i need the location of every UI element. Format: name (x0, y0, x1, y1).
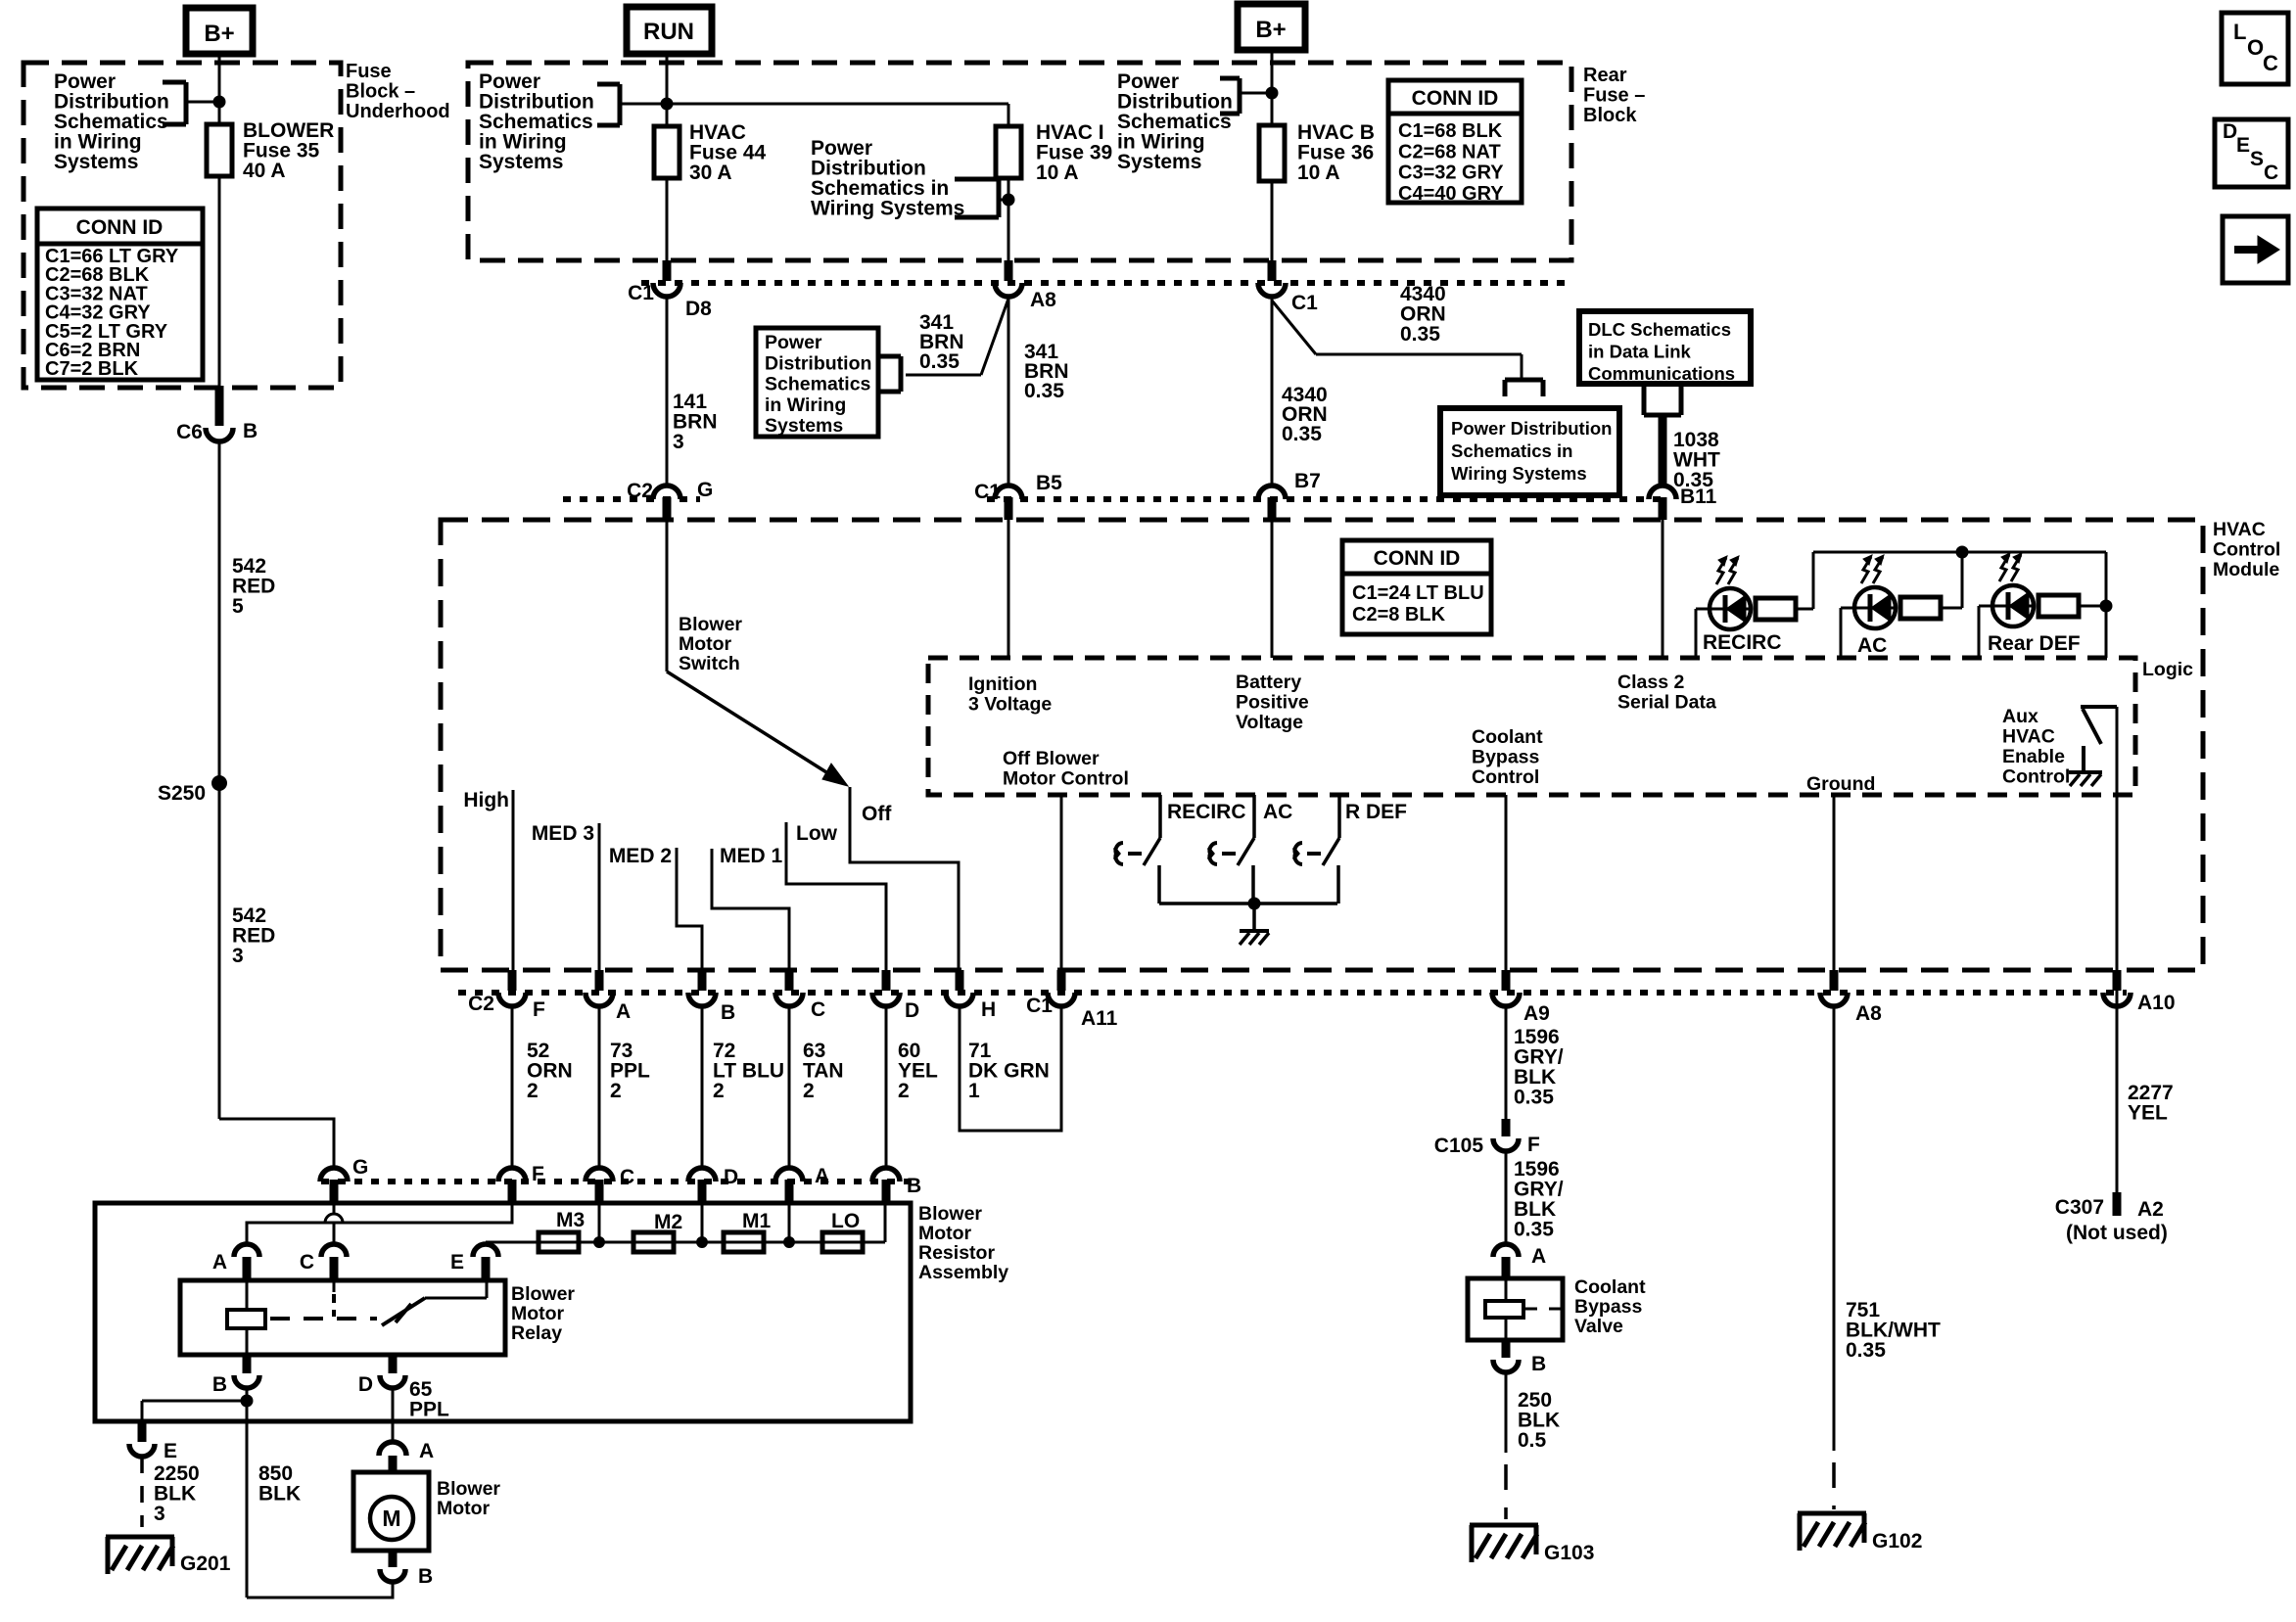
svg-text:A: A (212, 1251, 227, 1274)
svg-text:B: B (1531, 1353, 1546, 1375)
svg-text:Blower: Blower (437, 1478, 500, 1500)
svg-text:Systems: Systems (1117, 151, 1201, 173)
svg-text:C: C (300, 1251, 314, 1274)
svg-text:C4=40 GRY: C4=40 GRY (1398, 183, 1504, 205)
svg-text:Wiring Systems: Wiring Systems (811, 198, 964, 220)
svg-text:5: 5 (232, 595, 244, 618)
svg-text:M: M (382, 1506, 400, 1531)
svg-text:B+: B+ (204, 21, 234, 47)
svg-text:C2=8 BLK: C2=8 BLK (1352, 604, 1446, 626)
svg-text:Systems: Systems (54, 151, 138, 173)
svg-text:A: A (1531, 1245, 1546, 1268)
svg-text:B: B (721, 1001, 735, 1024)
svg-text:Communications: Communications (1588, 363, 1735, 384)
svg-text:MED 3: MED 3 (532, 822, 594, 845)
svg-text:Class 2: Class 2 (1617, 672, 1684, 693)
svg-text:2: 2 (610, 1080, 622, 1102)
svg-text:Coolant: Coolant (1472, 726, 1543, 748)
svg-text:0.35: 0.35 (1024, 380, 1064, 402)
svg-text:C1=68 BLK: C1=68 BLK (1398, 120, 1503, 142)
svg-text:Relay: Relay (511, 1322, 562, 1344)
svg-text:2: 2 (527, 1080, 539, 1102)
svg-text:Motor: Motor (511, 1303, 565, 1324)
svg-text:A10: A10 (2137, 992, 2176, 1014)
svg-text:B7: B7 (1294, 470, 1321, 492)
svg-text:G102: G102 (1872, 1530, 1922, 1552)
svg-text:Resistor: Resistor (918, 1242, 995, 1264)
svg-text:RECIRC: RECIRC (1167, 801, 1246, 823)
svg-text:D: D (2223, 120, 2237, 143)
svg-text:C: C (2264, 162, 2278, 184)
svg-text:C2: C2 (468, 993, 494, 1015)
svg-text:Serial Data: Serial Data (1617, 692, 1716, 714)
svg-text:S: S (2250, 148, 2264, 170)
svg-text:Positive: Positive (1236, 692, 1309, 714)
svg-text:30 A: 30 A (689, 162, 732, 184)
svg-text:M1: M1 (742, 1210, 771, 1232)
svg-text:0.35: 0.35 (919, 350, 960, 373)
svg-text:40 A: 40 A (243, 160, 286, 182)
svg-text:F: F (1527, 1134, 1540, 1156)
svg-text:Blower: Blower (679, 614, 742, 635)
svg-text:Bypass: Bypass (1472, 747, 1540, 768)
svg-text:in Data Link: in Data Link (1588, 342, 1692, 362)
svg-text:HVAC: HVAC (2002, 726, 2055, 748)
svg-text:MED 1: MED 1 (720, 845, 783, 867)
svg-text:B: B (243, 420, 258, 442)
svg-text:L: L (2233, 20, 2246, 44)
svg-text:E: E (450, 1251, 464, 1274)
svg-text:D: D (905, 999, 919, 1022)
svg-text:DLC Schematics: DLC Schematics (1588, 319, 1731, 340)
svg-text:BLK: BLK (258, 1483, 301, 1506)
svg-text:Block –: Block – (346, 81, 415, 103)
svg-text:3: 3 (673, 431, 684, 453)
svg-text:3: 3 (232, 945, 244, 967)
svg-text:Wiring Systems: Wiring Systems (1451, 463, 1587, 484)
svg-text:C307: C307 (2055, 1196, 2104, 1219)
svg-text:3 Voltage: 3 Voltage (968, 694, 1052, 716)
svg-text:1: 1 (968, 1080, 980, 1102)
svg-text:Motor Control: Motor Control (1003, 768, 1129, 790)
svg-text:Assembly: Assembly (918, 1262, 1008, 1283)
svg-text:LO: LO (831, 1210, 860, 1232)
svg-text:Block: Block (1583, 105, 1637, 126)
svg-text:0.35: 0.35 (1514, 1219, 1554, 1241)
svg-text:O: O (2247, 35, 2264, 60)
svg-text:S250: S250 (158, 782, 206, 805)
svg-text:Schematics in: Schematics in (1451, 440, 1572, 461)
svg-text:Ignition: Ignition (968, 673, 1037, 695)
svg-text:Rear DEF: Rear DEF (1988, 632, 2081, 655)
svg-text:HVAC: HVAC (2213, 519, 2266, 540)
svg-text:Control: Control (1472, 766, 1539, 788)
svg-text:C3=32 GRY: C3=32 GRY (1398, 162, 1504, 184)
svg-text:E: E (164, 1440, 177, 1462)
svg-text:Blower: Blower (918, 1203, 982, 1225)
svg-text:Enable: Enable (2002, 746, 2065, 767)
svg-text:0.35: 0.35 (1514, 1087, 1554, 1109)
svg-text:Underhood: Underhood (346, 101, 450, 122)
svg-text:Rear: Rear (1583, 65, 1627, 86)
svg-text:2: 2 (713, 1080, 725, 1102)
svg-text:2: 2 (803, 1080, 815, 1102)
svg-text:C6: C6 (176, 421, 203, 443)
svg-text:G: G (697, 479, 713, 501)
svg-text:C105: C105 (1434, 1135, 1484, 1157)
svg-text:Control: Control (2213, 539, 2280, 561)
svg-text:(Not used): (Not used) (2066, 1222, 2168, 1244)
svg-text:Battery: Battery (1236, 672, 1301, 693)
svg-text:Power: Power (765, 332, 822, 353)
svg-text:Systems: Systems (765, 415, 843, 437)
svg-text:B: B (418, 1565, 433, 1588)
svg-text:10 A: 10 A (1297, 162, 1340, 184)
svg-text:A: A (815, 1165, 829, 1187)
svg-text:in Wiring: in Wiring (765, 394, 846, 416)
svg-text:R DEF: R DEF (1345, 801, 1407, 823)
svg-text:RECIRC: RECIRC (1703, 631, 1782, 654)
svg-text:CONN ID: CONN ID (1374, 547, 1461, 570)
svg-text:Bypass: Bypass (1574, 1296, 1643, 1318)
svg-text:A: A (419, 1440, 434, 1462)
svg-text:0.35: 0.35 (1282, 423, 1322, 445)
svg-text:G103: G103 (1544, 1542, 1594, 1564)
svg-text:C1: C1 (974, 481, 1001, 503)
svg-text:F: F (533, 998, 545, 1021)
svg-text:B: B (907, 1175, 921, 1197)
svg-text:Motor: Motor (918, 1223, 972, 1244)
svg-text:Distribution: Distribution (765, 352, 871, 374)
svg-text:2: 2 (898, 1080, 910, 1102)
svg-text:10 A: 10 A (1036, 162, 1079, 184)
svg-text:D8: D8 (685, 298, 712, 320)
svg-text:Control: Control (2002, 766, 2070, 788)
svg-text:Coolant: Coolant (1574, 1276, 1646, 1298)
svg-text:Aux: Aux (2002, 706, 2038, 727)
svg-text:B11: B11 (1680, 486, 1717, 508)
svg-text:G201: G201 (180, 1552, 231, 1575)
svg-text:Logic: Logic (2142, 659, 2193, 680)
svg-text:CONN ID: CONN ID (1412, 87, 1499, 110)
svg-text:CONN ID: CONN ID (76, 216, 164, 239)
svg-text:Power Distribution: Power Distribution (1451, 418, 1612, 439)
svg-text:RUN: RUN (643, 19, 694, 45)
svg-text:0.35: 0.35 (1846, 1339, 1886, 1362)
svg-text:0.35: 0.35 (1400, 323, 1440, 346)
svg-text:E: E (2236, 134, 2250, 157)
svg-text:B+: B+ (1255, 17, 1286, 43)
svg-text:A8: A8 (1030, 289, 1056, 311)
svg-text:MED 2: MED 2 (609, 845, 672, 867)
svg-text:Blower: Blower (511, 1283, 575, 1305)
svg-text:C: C (811, 998, 825, 1021)
svg-text:C: C (620, 1166, 634, 1188)
svg-text:Ground: Ground (1806, 773, 1875, 795)
svg-text:YEL: YEL (2128, 1102, 2168, 1125)
svg-text:Switch: Switch (679, 653, 740, 674)
svg-text:3: 3 (154, 1503, 165, 1525)
svg-text:Low: Low (796, 822, 838, 845)
svg-text:C7=2 BLK: C7=2 BLK (45, 358, 139, 380)
svg-text:M3: M3 (556, 1209, 585, 1231)
svg-text:Off: Off (862, 803, 892, 825)
svg-text:A9: A9 (1523, 1002, 1550, 1025)
svg-text:B5: B5 (1036, 472, 1062, 494)
svg-text:Fuse: Fuse (346, 61, 392, 82)
svg-text:M2: M2 (654, 1211, 682, 1233)
svg-text:DK GRN: DK GRN (968, 1060, 1050, 1083)
svg-text:C2=68 NAT: C2=68 NAT (1398, 141, 1501, 162)
svg-text:C2: C2 (627, 480, 653, 502)
svg-text:AC: AC (1263, 801, 1292, 823)
svg-text:D: D (358, 1373, 373, 1396)
svg-text:Off Blower: Off Blower (1003, 748, 1100, 769)
svg-text:Valve: Valve (1574, 1316, 1623, 1337)
svg-text:A11: A11 (1081, 1007, 1118, 1030)
svg-text:High: High (463, 789, 509, 811)
svg-text:C1=24 LT BLU: C1=24 LT BLU (1352, 582, 1484, 604)
svg-text:C1: C1 (1291, 292, 1318, 314)
svg-text:Module: Module (2213, 559, 2279, 580)
svg-text:Systems: Systems (479, 151, 563, 173)
svg-text:A: A (616, 1000, 631, 1023)
svg-text:D: D (724, 1166, 738, 1188)
svg-text:Motor: Motor (679, 633, 732, 655)
svg-text:Fuse –: Fuse – (1583, 85, 1645, 107)
svg-text:H: H (981, 998, 996, 1021)
svg-text:G: G (352, 1156, 368, 1179)
svg-text:F: F (532, 1163, 544, 1185)
svg-text:Schematics: Schematics (765, 374, 871, 395)
svg-text:Voltage: Voltage (1236, 712, 1303, 733)
svg-text:0.5: 0.5 (1518, 1429, 1547, 1452)
svg-text:A2: A2 (2137, 1198, 2164, 1221)
svg-text:C: C (2263, 51, 2278, 75)
svg-text:C1: C1 (628, 282, 654, 304)
svg-text:B: B (212, 1373, 227, 1396)
svg-text:PPL: PPL (409, 1399, 449, 1421)
svg-text:Motor: Motor (437, 1498, 491, 1519)
svg-text:A8: A8 (1855, 1002, 1882, 1025)
svg-text:C1: C1 (1026, 995, 1053, 1017)
svg-text:AC: AC (1857, 634, 1887, 657)
